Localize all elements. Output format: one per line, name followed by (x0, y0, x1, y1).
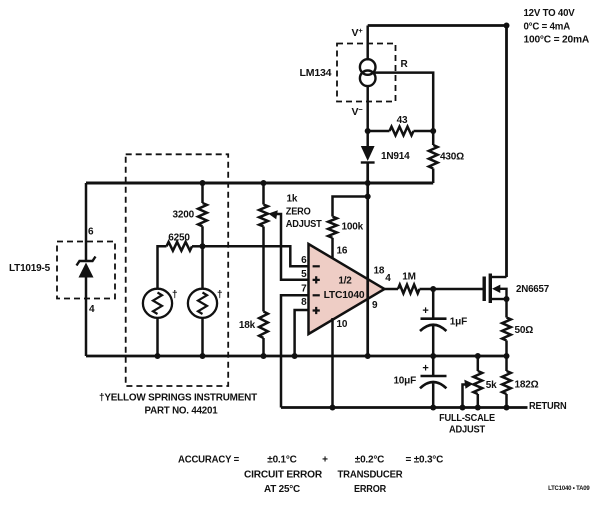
wire pin 7 to return rail (281, 295, 309, 407)
wire 50 ohm bottom to mid rail (505, 341, 508, 357)
wire cap column 10uF top (432, 356, 435, 375)
svg-text:ACCURACY =: ACCURACY = (178, 455, 239, 466)
resistor 50 ohm (502, 318, 511, 341)
svg-text:100k: 100k (342, 222, 364, 233)
wire main horizontal rail (86, 181, 433, 184)
svg-text:1M: 1M (402, 271, 416, 282)
svg-text:6: 6 (88, 226, 94, 237)
wire 5k pot top stub (477, 356, 480, 371)
wire 3200 bottom to 6250 junction (201, 226, 204, 246)
svg-text:PART NO. 44201: PART NO. 44201 (145, 406, 219, 417)
svg-text:7: 7 (301, 283, 307, 294)
svg-text:+: + (422, 363, 428, 375)
wire 430 ohm bottom stub to main rail (432, 169, 435, 184)
svg-text:AT 25°C: AT 25°C (264, 484, 300, 495)
wire 1k pot top from rail (262, 183, 265, 205)
op-amp minus mark pin 6 (313, 265, 320, 267)
svg-text:LTC1040: LTC1040 (324, 290, 365, 301)
thermistor T2 circle (188, 289, 217, 318)
node pin 8 mid rail junction (292, 353, 298, 359)
wire cap column 1uF top (432, 289, 435, 318)
node comparator column mid rail junction (365, 353, 371, 359)
wire V+ into LM134 (366, 26, 369, 61)
wire 6250 right stub (192, 245, 203, 248)
op-amp minus mark pin 7 (313, 294, 320, 296)
wire mid rail (86, 355, 507, 358)
node 5k wiper return junction (460, 405, 466, 411)
node 3200 top rail junction (200, 180, 206, 186)
svg-text:8: 8 (301, 297, 307, 308)
op-amp plus mark pin 5 (313, 276, 320, 283)
svg-text:ADJUST: ADJUST (449, 425, 485, 436)
wire thermistor 2 top (201, 246, 204, 288)
svg-text:LTC1040 • TA09: LTC1040 • TA09 (548, 486, 590, 492)
zener diode LT1019 symbol (77, 257, 96, 278)
svg-text:†: † (172, 290, 177, 301)
svg-text:0°C = 4mA: 0°C = 4mA (524, 22, 571, 33)
LM134 current source circles (360, 59, 376, 86)
svg-text:100°C = 20mA: 100°C = 20mA (524, 35, 590, 46)
node pin 10 return junction (330, 405, 336, 411)
wire pot wiper to pin 5 (271, 214, 309, 280)
svg-text:9: 9 (372, 300, 378, 311)
svg-text:18: 18 (374, 265, 385, 276)
wire diode cathode down through rail to 100k branch and comparator (366, 163, 369, 357)
svg-text:1N914: 1N914 (381, 151, 410, 162)
wire 6250 node to pin 6 (203, 246, 309, 266)
wire left column LT1019 bottom (85, 278, 88, 357)
node 5k bottom return junction (475, 405, 481, 411)
svg-text:= ±0.3°C: = ±0.3°C (406, 455, 444, 466)
svg-text:ADJUST: ADJUST (286, 219, 322, 230)
wire 430 ohm top stub (432, 131, 435, 145)
wire thermistor 2 bottom to rail (201, 318, 204, 356)
svg-text:16: 16 (337, 245, 348, 256)
op-amp plus mark pin 8 (313, 307, 320, 314)
wire 1k pot bottom to 18k top (262, 227, 265, 312)
svg-text:ZERO: ZERO (286, 207, 311, 218)
resistor 18k (259, 312, 268, 339)
svg-text:6: 6 (301, 255, 307, 266)
wire top supply rail V+ to right column (368, 24, 507, 27)
svg-text:ERROR: ERROR (354, 484, 387, 495)
svg-text:R: R (401, 59, 409, 70)
transistor Q1 2N6657 MOSFET symbol (484, 274, 506, 304)
1k pot wiper arrow (268, 210, 278, 219)
svg-text:±0.1°C: ±0.1°C (267, 455, 296, 466)
wire LM134 V- down to 43 ohm node (366, 86, 369, 132)
resistor 430 ohm (429, 145, 438, 169)
LT1019-5 dashed outline box (57, 242, 115, 299)
wire 6250 left stub and thermistor 1 drop (158, 246, 167, 288)
svg-text:430Ω: 430Ω (440, 152, 464, 163)
svg-text:18k: 18k (239, 320, 256, 331)
thermistor T2 internal zigzag (198, 293, 207, 315)
potentiometer 1k zero adjust element (259, 205, 268, 227)
capacitor C2 10uF plates (420, 376, 447, 388)
resistor 100k (328, 217, 337, 238)
resistor 6250 (167, 242, 193, 251)
svg-text:3200: 3200 (173, 210, 195, 221)
svg-text:50Ω: 50Ω (515, 325, 534, 336)
LM134 dashed outline box (337, 44, 396, 102)
wire 182 ohm bottom to return rail (505, 394, 508, 408)
node 3200 6250 junction (200, 243, 206, 249)
node 1M output junction (430, 286, 436, 292)
wire thermistor 1 bottom to rail (156, 318, 159, 356)
5k pot wiper arrow (464, 380, 473, 389)
svg-text:12V TO 40V: 12V TO 40V (524, 8, 576, 19)
resistor 3200 (198, 203, 207, 226)
wire diode node segments (366, 131, 369, 147)
node thermistor 2 mid rail junction (200, 353, 206, 359)
svg-text:LM134: LM134 (300, 68, 332, 79)
wire cap column 10uF bottom to return rail (432, 384, 435, 408)
svg-text:±0.2°C: ±0.2°C (355, 455, 384, 466)
svg-text:2N6657: 2N6657 (516, 284, 550, 295)
node 1k pot rail junction (261, 180, 267, 186)
svg-text:†: † (217, 290, 222, 301)
svg-text:10μF: 10μF (393, 376, 416, 387)
svg-text:4: 4 (385, 273, 391, 284)
svg-text:10: 10 (337, 319, 348, 330)
svg-text:182Ω: 182Ω (515, 379, 539, 390)
svg-text:4: 4 (89, 304, 95, 315)
wire 43 ohm right stub (414, 130, 434, 133)
wire MOSFET source down to 50 ohm (505, 299, 508, 318)
svg-text:43: 43 (397, 115, 408, 126)
wire 5k wiper from return rail (463, 385, 469, 408)
wire 100k bottom into pin 16 (331, 238, 334, 258)
svg-text:RETURN: RETURN (529, 401, 567, 412)
wire pin 8 to mid rail (295, 310, 309, 356)
svg-text:LT1019-5: LT1019-5 (9, 263, 51, 274)
node 18k mid rail junction (261, 353, 267, 359)
node 50 ohm 182 ohm junction (504, 353, 510, 359)
svg-text:+: + (322, 455, 328, 466)
wire pin 10 down to return rail (331, 318, 334, 408)
svg-text:1/2: 1/2 (338, 276, 352, 287)
wire 5k pot bottom to return rail (477, 394, 480, 408)
svg-text:5k: 5k (486, 380, 497, 391)
node 182 ohm return junction (504, 405, 510, 411)
potentiometer 5k full-scale adjust element (473, 371, 482, 394)
svg-text:+: + (422, 305, 428, 317)
node 43 ohm left junction (365, 128, 371, 134)
resistor 1M (398, 285, 420, 294)
wire 182 ohm top stub (505, 356, 508, 371)
node thermistor 1 mid rail junction (155, 353, 161, 359)
wire 43 ohm left stub (368, 130, 390, 133)
wire return rail (281, 406, 528, 409)
op-amp U1 1/2 LTC1040 comparator triangle (309, 244, 385, 334)
thermistor T1 internal zigzag (153, 293, 162, 315)
node 5k top mid rail junction (475, 353, 481, 359)
resistor 43 ohm (390, 127, 414, 136)
node diode cathode rail junction (365, 180, 371, 186)
wire LM134 R pin over and down to 43 ohm node (374, 73, 433, 131)
capacitor C1 1uF plates (420, 319, 447, 331)
wire 1M to gate node (420, 288, 485, 291)
wire 18k bottom to rail (262, 338, 265, 356)
wire left column LT1019 top (85, 183, 88, 262)
node 100k branch junction (365, 194, 371, 200)
svg-text:5: 5 (301, 269, 307, 280)
Yellow Springs Instrument dashed outline box (126, 154, 229, 386)
wire 100k branch from diode column (333, 197, 368, 217)
node 10uF return junction (430, 405, 436, 411)
node 1uF mid rail junction (430, 353, 436, 359)
svg-text:TRANSDUCER: TRANSDUCER (338, 470, 404, 481)
node MOSFET source junction (504, 296, 510, 302)
thermistor T1 circle (143, 289, 172, 318)
node 43 ohm right junction (430, 128, 436, 134)
diode 1N914 symbol (361, 146, 375, 163)
svg-text:1μF: 1μF (450, 317, 467, 328)
svg-text:CIRCUIT ERROR: CIRCUIT ERROR (244, 470, 323, 481)
wire op-amp output to 1M (385, 288, 399, 291)
svg-text:FULL-SCALE: FULL-SCALE (439, 413, 495, 424)
wire right supply column down to MOSFET drain (505, 26, 508, 278)
wire cap column 1uF bottom to mid rail (432, 326, 435, 356)
svg-text:1k: 1k (287, 194, 298, 205)
resistor 182 ohm (502, 371, 511, 394)
svg-text:†YELLOW SPRINGS INSTRUMENT: †YELLOW SPRINGS INSTRUMENT (99, 393, 257, 404)
wire 3200 from rail to 6250 node (201, 183, 204, 203)
svg-text:6250: 6250 (168, 232, 190, 243)
node top supply junction (504, 23, 510, 29)
